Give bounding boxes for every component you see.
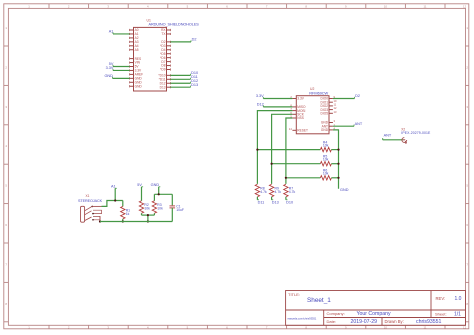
U2 left pin NSS bbox=[290, 115, 304, 121]
resistor R6 bbox=[286, 169, 339, 181]
wire bottom rail bbox=[100, 221, 172, 223]
wire net ANT from U2 bbox=[333, 122, 363, 126]
junction X1/rail bbox=[99, 220, 101, 222]
capacitor C1 bbox=[170, 204, 184, 212]
U2 left pin SCK bbox=[290, 111, 304, 117]
U2 right pin GND bbox=[321, 127, 336, 133]
resistor R1 bbox=[121, 201, 131, 222]
svg-text:10: 10 bbox=[384, 326, 388, 330]
wire net 3.3V to U2 bbox=[256, 94, 293, 98]
U2 right pin ANT bbox=[322, 123, 336, 129]
svg-text:chris93551: chris93551 bbox=[416, 319, 441, 325]
X1 ring contact bbox=[85, 210, 102, 215]
svg-text:D11: D11 bbox=[258, 200, 265, 204]
svg-text:RFM69CW: RFM69CW bbox=[309, 90, 328, 95]
junction GND tee bbox=[158, 193, 160, 195]
junction R1/rail bbox=[122, 220, 124, 222]
junction divider/rail bbox=[147, 220, 149, 222]
wire net A1 to U1 bbox=[109, 30, 130, 34]
U1 right pin RX bbox=[161, 28, 170, 32]
svg-text:4.7k: 4.7k bbox=[289, 190, 296, 194]
svg-text:1.0: 1.0 bbox=[455, 296, 462, 302]
U1 right pin D8 bbox=[161, 64, 170, 68]
wire X1 tip to node A1 bbox=[102, 201, 123, 207]
svg-text:12: 12 bbox=[463, 326, 467, 330]
U1 left pin GND bbox=[130, 77, 143, 81]
svg-text:4.7k: 4.7k bbox=[260, 190, 267, 194]
svg-text:2019-07-29: 2019-07-29 bbox=[351, 319, 378, 325]
wire net D12 from U1 bbox=[170, 79, 198, 83]
wire net 5V drop bbox=[137, 183, 143, 201]
svg-text:NSS: NSS bbox=[297, 116, 304, 120]
wire R2 R3 bottoms join bbox=[142, 215, 155, 221]
wire net D11 from U1 bbox=[170, 75, 197, 79]
op-amp U2 RFM69CW symbol bbox=[296, 87, 329, 134]
connector X2 bbox=[401, 128, 431, 144]
svg-text:10k: 10k bbox=[323, 158, 329, 162]
svg-text:12: 12 bbox=[463, 4, 467, 8]
U1 left pin GND bbox=[130, 84, 143, 88]
svg-text:ANT: ANT bbox=[384, 134, 392, 138]
wire U2 SCK down bbox=[272, 114, 293, 184]
wire U2 NSS down bbox=[286, 118, 293, 184]
title block bbox=[286, 291, 466, 326]
U1 left pin A2 bbox=[130, 36, 139, 40]
wire net ANT to X2 bbox=[383, 134, 403, 140]
frame column ticks bottom bbox=[28, 325, 466, 329]
svg-text:D10: D10 bbox=[286, 200, 293, 204]
svg-text:1k: 1k bbox=[126, 212, 130, 216]
U1 right pin *D10 bbox=[158, 74, 170, 78]
junction R5/GND bbox=[337, 163, 339, 165]
U1 right pin TX bbox=[161, 32, 170, 36]
svg-text:4.7k: 4.7k bbox=[275, 190, 282, 194]
U1 left pin A0 bbox=[130, 28, 139, 32]
svg-text:DIO5: DIO5 bbox=[321, 111, 329, 115]
U1 left pin A3 bbox=[130, 40, 139, 44]
svg-text:D2: D2 bbox=[192, 37, 197, 41]
svg-text:GND: GND bbox=[340, 188, 349, 192]
resistor R3 bbox=[152, 201, 163, 215]
U2 right pin DIO5 bbox=[321, 110, 337, 116]
wire net D10 from U1 bbox=[170, 71, 198, 75]
svg-text:X1: X1 bbox=[86, 194, 90, 198]
U2 right pin DIO3 bbox=[321, 106, 337, 112]
U1 right pin *D9 bbox=[160, 68, 170, 72]
svg-text:GND: GND bbox=[104, 74, 113, 78]
U2 left pin 3.3V bbox=[290, 95, 304, 101]
frame row ticks left bbox=[4, 26, 9, 322]
U1 left pin GND bbox=[130, 80, 143, 84]
svg-text:10k: 10k bbox=[144, 206, 150, 210]
U1 left pin 3.3V bbox=[130, 69, 142, 73]
U1 left pin A5 bbox=[130, 48, 139, 52]
junction R2R3 join bbox=[147, 214, 149, 216]
svg-text:GND: GND bbox=[321, 128, 329, 132]
U1 left pin 5V bbox=[130, 65, 140, 69]
wire GND tee bbox=[154, 194, 172, 205]
wire net D12 to U2 MISO bbox=[257, 103, 293, 107]
U2 left pin MISO bbox=[290, 104, 306, 110]
svg-text:Company:: Company: bbox=[327, 311, 345, 316]
U2 right pin DIO2 bbox=[321, 103, 337, 109]
U1 right pin D2 bbox=[161, 40, 170, 44]
svg-text:easyeda.com/chris93551: easyeda.com/chris93551 bbox=[288, 316, 317, 320]
U1 right pin *D3 bbox=[160, 44, 170, 48]
U2 right pin DIO1 bbox=[321, 99, 337, 105]
wire net 3.3V to U1 bbox=[106, 66, 130, 70]
svg-text:D13: D13 bbox=[191, 83, 198, 87]
svg-text:10: 10 bbox=[384, 4, 388, 8]
U2 left pin RESET bbox=[289, 127, 308, 133]
svg-text:D12: D12 bbox=[257, 103, 264, 107]
resistor R4 bbox=[257, 140, 338, 152]
svg-text:Sheet:: Sheet: bbox=[435, 311, 447, 316]
resistor R9 bbox=[269, 184, 281, 204]
svg-text:3.3V: 3.3V bbox=[106, 66, 114, 70]
U1 right pin *D5 bbox=[160, 52, 170, 56]
wire net GND to U1 bbox=[104, 74, 129, 78]
U2 left pin MOSI bbox=[290, 107, 305, 113]
resistor R7 bbox=[284, 184, 296, 204]
svg-text:10uF: 10uF bbox=[176, 208, 184, 212]
svg-text:A1: A1 bbox=[109, 30, 114, 34]
junction R6/GND bbox=[337, 177, 339, 179]
svg-text:11: 11 bbox=[424, 326, 427, 330]
svg-text:REV:: REV: bbox=[436, 296, 446, 301]
U1 left pin A1 bbox=[130, 32, 139, 36]
U1 right pin *D6 bbox=[160, 56, 170, 60]
svg-text:*D9: *D9 bbox=[160, 68, 166, 72]
svg-text:5V: 5V bbox=[137, 183, 142, 187]
svg-text:10k: 10k bbox=[323, 143, 329, 147]
svg-text:GND: GND bbox=[151, 183, 160, 187]
U1 right pin D13 bbox=[160, 85, 171, 89]
svg-text:RESET: RESET bbox=[297, 128, 308, 132]
junction SCK/R5 bbox=[271, 163, 273, 165]
frame column ticks top bbox=[28, 4, 466, 9]
wire U2 GND down to GND flag bbox=[333, 130, 349, 192]
U1 right pin D7 bbox=[161, 60, 170, 64]
svg-text:D13: D13 bbox=[272, 200, 279, 204]
U2 right pin DIO0 bbox=[321, 95, 336, 101]
svg-text:Drawn By:: Drawn By: bbox=[385, 319, 404, 324]
svg-text:GND: GND bbox=[135, 84, 143, 88]
svg-text:IPEX-20279-001E: IPEX-20279-001E bbox=[401, 131, 431, 135]
U1 left pin A4 bbox=[130, 44, 139, 48]
frame row ticks right bbox=[466, 26, 469, 322]
svg-text:10k: 10k bbox=[157, 206, 163, 210]
resistor R8 bbox=[255, 184, 267, 204]
svg-text:3.3V: 3.3V bbox=[256, 94, 264, 98]
wire C1 bottom to rail bbox=[171, 208, 173, 222]
svg-text:D2: D2 bbox=[355, 94, 360, 98]
wire net D2 from U2 DIO0 bbox=[333, 94, 360, 98]
wire net 5V to U1 bbox=[109, 62, 130, 66]
connector X1 stereojack bbox=[78, 194, 103, 222]
svg-text:ARDUINO_SHIELDNOHOLES: ARDUINO_SHIELDNOHOLES bbox=[149, 23, 200, 27]
U1 left pin AREF bbox=[130, 73, 144, 77]
wire net A1 drop bbox=[111, 185, 117, 201]
svg-text:Your Company: Your Company bbox=[357, 311, 392, 317]
svg-text:1/1: 1/1 bbox=[454, 311, 461, 317]
svg-text:Sheet_1: Sheet_1 bbox=[307, 297, 331, 304]
svg-text:Date:: Date: bbox=[327, 319, 337, 324]
resistor R5 bbox=[272, 154, 339, 166]
svg-text:TITLE:: TITLE: bbox=[288, 292, 300, 297]
U1 right pin D4 bbox=[161, 48, 170, 52]
U1 left pin VIN bbox=[130, 61, 141, 65]
U1 right pin D12 bbox=[160, 81, 171, 85]
wire net D2 from U1 bbox=[170, 37, 196, 41]
junction A1/node bbox=[114, 199, 116, 201]
op-amp U1 arduino shield symbol bbox=[134, 18, 200, 91]
junction R4/GND bbox=[337, 149, 339, 151]
junction MOSI/R4 bbox=[256, 149, 258, 151]
U2 right pin GND bbox=[321, 119, 336, 125]
junction NSS/R6 bbox=[285, 177, 287, 179]
U1 right pin *D11 bbox=[159, 77, 171, 81]
svg-text:11: 11 bbox=[424, 4, 427, 8]
wire U2 MOSI down bbox=[257, 111, 292, 184]
resistor R2 bbox=[139, 201, 150, 215]
U1 left pin RES bbox=[130, 57, 142, 61]
svg-text:A5: A5 bbox=[135, 48, 139, 52]
svg-text:D13: D13 bbox=[160, 85, 166, 89]
svg-text:ANT: ANT bbox=[355, 122, 363, 126]
X1 sleeve contact bbox=[85, 216, 100, 221]
wire net GND drop bbox=[151, 183, 161, 194]
X1 tip contact bbox=[85, 206, 102, 211]
svg-text:STEREOJACK: STEREOJACK bbox=[78, 199, 103, 203]
wire net D13 from U1 bbox=[170, 83, 198, 87]
svg-text:10k: 10k bbox=[323, 172, 329, 176]
svg-text:3.3V: 3.3V bbox=[297, 97, 304, 101]
svg-text:A1: A1 bbox=[111, 185, 116, 189]
